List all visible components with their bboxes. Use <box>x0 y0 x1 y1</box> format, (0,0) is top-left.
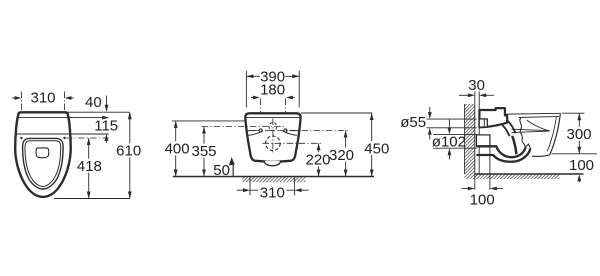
inner top edge line (front) <box>247 116 300 118</box>
hinge centerline left (dash-dot vertical) <box>21 92 23 142</box>
bowl rim inner line <box>519 116 559 117</box>
dimension 355 line <box>203 127 205 177</box>
mounting hole centerline right (dash-dot vertical) <box>285 99 287 134</box>
toilet outer outline (front) <box>245 113 300 161</box>
svg-text:310: 310 <box>30 90 55 107</box>
dimension 450 line <box>371 113 373 177</box>
dimension 400 line <box>175 121 177 177</box>
ø102 bottom line <box>433 147 477 149</box>
dimension 180 arrows <box>251 97 255 99</box>
dimension 40 down arrow <box>106 96 108 107</box>
toilet outer outline (plan) <box>15 112 70 197</box>
svg-text:300: 300 <box>566 126 591 143</box>
dimension 310 bottom line + arrows <box>237 189 244 191</box>
svg-text:30: 30 <box>468 77 485 94</box>
flush housing block <box>479 108 507 127</box>
wall back line <box>463 104 465 174</box>
floor line (front view) <box>173 176 374 178</box>
sump inner wall / pipe top wall <box>476 146 525 157</box>
ø55 top line <box>427 118 477 120</box>
floor hatch (side view) <box>475 175 560 180</box>
dimension 610 line <box>129 112 131 198</box>
svg-text:220: 220 <box>305 152 330 169</box>
mounting hole right <box>284 129 287 132</box>
flush elbow (inner channel) <box>505 123 513 135</box>
bowl front edge <box>550 113 561 154</box>
dimension 220 line <box>318 143 320 176</box>
svg-text:100: 100 <box>470 191 495 208</box>
dimension 320 line <box>345 131 347 177</box>
390 extension line right <box>298 71 300 108</box>
bowl bottom extension line <box>552 153 598 155</box>
300 top extension line <box>562 112 585 114</box>
svg-text:418: 418 <box>77 158 102 175</box>
svg-text:400: 400 <box>165 141 190 158</box>
dimension 300 line <box>578 113 580 154</box>
sump outer wall / pipe bottom wall <box>476 149 530 162</box>
ø102 top line <box>433 133 477 135</box>
svg-text:115: 115 <box>94 118 118 135</box>
bowl bottom edge <box>532 155 550 157</box>
svg-text:450: 450 <box>364 140 389 157</box>
wall face line (finish layer) <box>478 92 480 175</box>
svg-text:100: 100 <box>569 157 594 174</box>
flush elbow (outer wall) <box>505 123 513 135</box>
400 top extension line <box>172 120 245 122</box>
hinge bolt right <box>63 137 65 139</box>
lid edge extension with right arrow <box>67 117 104 119</box>
top edge extension line (to 610) <box>66 111 130 113</box>
inlet center mark (dashed circle) <box>269 123 277 131</box>
bowl rim top line <box>506 112 561 115</box>
svg-text:355: 355 <box>191 143 216 160</box>
dimension 115 up arrow <box>105 139 107 143</box>
ø102 up arrow <box>448 155 450 160</box>
dimension 310 right arrow <box>70 97 74 99</box>
water spreader wedge <box>512 129 550 132</box>
seat ring inner (plan) <box>25 141 61 187</box>
svg-text:180: 180 <box>260 81 285 98</box>
svg-text:320: 320 <box>329 147 354 164</box>
floor hatch (front view) <box>242 177 305 182</box>
inlet pipe stub <box>479 119 487 127</box>
ø55 bottom line <box>427 127 477 129</box>
outlet circle (dashed) <box>266 136 281 151</box>
450 top extension line <box>301 112 372 114</box>
hinge centerline right (dash-dot vertical) <box>64 92 66 142</box>
wall hatch <box>464 104 474 179</box>
dimension 390 line + arrows <box>246 75 260 77</box>
floor line (side view) <box>475 173 584 175</box>
ø102 down arrow <box>448 119 450 128</box>
lid front edge line (plan) <box>17 117 67 119</box>
svg-text:310: 310 <box>260 185 285 202</box>
ø55 down arrow <box>429 107 431 114</box>
dimension 310 left arrow <box>12 97 16 99</box>
svg-text:50: 50 <box>213 162 230 179</box>
100 bottom extension (drain axis) <box>489 147 491 190</box>
bottom extension line (plan) <box>54 198 130 200</box>
svg-text:610: 610 <box>116 143 141 160</box>
drain fitting box <box>476 135 490 146</box>
dimension 30 arrows <box>459 94 468 96</box>
mounting hole centerline left (dash-dot vertical) <box>260 99 262 134</box>
seat ring outer (plan) <box>23 138 64 189</box>
svg-text:40: 40 <box>85 94 102 111</box>
seat hinge notch right <box>283 131 298 136</box>
ø55 up arrow <box>429 134 431 140</box>
dimension 418 line <box>88 138 90 199</box>
svg-text:ø55: ø55 <box>400 114 426 131</box>
inlet/seat axis dash-dot line (355 reference) <box>202 126 285 128</box>
outlet axis dash-dot (220 reference) <box>263 142 323 144</box>
flush down-tube diagonal <box>512 136 516 154</box>
inlet stub divider <box>483 119 485 127</box>
seat line extension <box>68 133 109 135</box>
bowl front inner line <box>547 117 556 152</box>
390 extension line left <box>245 71 247 108</box>
dimension 100 bottom arrows <box>462 188 469 190</box>
hinge axis extension (dash-dot) <box>66 137 111 139</box>
vertical centerline (dash-dot) <box>272 119 274 153</box>
trap bump (front bottom) <box>264 161 280 166</box>
seat hinge notch left <box>248 131 263 136</box>
100 right up arrow below floor <box>578 180 580 183</box>
310 bottom extension left <box>249 177 251 196</box>
bowl inner slope line <box>527 120 550 131</box>
svg-text:ø102: ø102 <box>432 134 466 151</box>
50 leader arrow (bold) <box>232 165 234 177</box>
310 bottom extension right <box>294 177 296 196</box>
mounting hole left <box>259 129 262 132</box>
flush water blob (plan) <box>36 148 49 158</box>
hinge bolt left <box>20 137 22 139</box>
mounting holes axis dash-dot (320 reference) <box>253 130 349 132</box>
section break squiggle <box>520 118 531 149</box>
seat hinge line (plan) <box>16 133 68 135</box>
wall mid line / 100 extension <box>474 92 476 190</box>
